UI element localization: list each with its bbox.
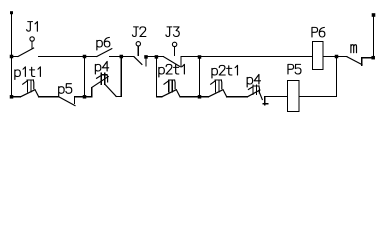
wire node A2 to p4 corner — [85, 96, 92, 98]
contact p2t1 second — [209, 80, 227, 97]
junction node E — [198, 55, 202, 59]
wire p2t1 second to p4 second — [227, 96, 248, 98]
junction node A2 — [83, 95, 87, 99]
label J2 — [132, 27, 145, 37]
junction node D — [155, 55, 159, 59]
switch m — [347, 57, 374, 65]
junction node G — [371, 56, 375, 60]
coil P6 — [313, 42, 324, 70]
wire node F down to lower rung — [336, 57, 338, 97]
wire node A to A2 vertical — [84, 57, 86, 97]
label J3 — [166, 27, 179, 37]
label p5 — [59, 84, 72, 97]
contact p4 second — [247, 85, 262, 100]
junction rail-lower — [10, 95, 14, 99]
wire J2 to tap D — [146, 56, 156, 58]
stub vertical — [264, 97, 266, 105]
wire tap corner to p2t1 — [156, 96, 161, 98]
label P5 — [288, 64, 301, 74]
wire node D down to p2t1 — [155, 57, 157, 97]
label P6 — [312, 27, 325, 37]
wire node B down to p4 exit — [120, 57, 122, 97]
wire node A to p6 — [85, 56, 97, 58]
wire node E down to lower rung — [199, 57, 201, 97]
wire node F to switch m — [337, 56, 348, 58]
wire node E to coil P6 — [200, 56, 313, 58]
wire node B to J2 — [121, 56, 134, 58]
junction node B — [120, 55, 124, 59]
wire coil P5 to node F corner — [299, 96, 337, 98]
label m — [351, 45, 357, 53]
label p2t1 second — [212, 65, 238, 78]
switch J2 — [134, 42, 146, 66]
wire stub corner to coil P5 — [265, 96, 288, 98]
switch J3 — [164, 42, 181, 66]
right rail — [373, 15, 375, 58]
label p6 — [97, 37, 110, 50]
label p4 first — [95, 61, 108, 74]
contact p4 raised — [92, 73, 122, 97]
wire p5 to node A2 — [75, 96, 85, 98]
wire node E2 to p2t1 second — [200, 96, 209, 98]
terminal top-left — [10, 11, 13, 14]
junction node C — [144, 55, 148, 59]
wire p6 to node B — [110, 56, 122, 58]
switch J1 — [18, 37, 34, 57]
junction rail-main — [10, 55, 14, 59]
contact p5 — [59, 97, 76, 106]
left rail — [11, 12, 13, 97]
contact p1t1 — [21, 80, 39, 97]
wire p2t1 to node E2 — [180, 96, 200, 98]
wire coil P6 to node F — [323, 56, 337, 58]
wire node D to J3 — [156, 56, 163, 58]
terminal top-right — [372, 13, 376, 17]
stub tick — [263, 103, 268, 105]
junction node F — [335, 55, 339, 59]
label p1t1 — [15, 67, 41, 80]
label J1 — [27, 22, 38, 32]
wire J1 to node A — [39, 56, 85, 58]
coil P5 — [288, 81, 300, 112]
wire p1t1 to p5 — [39, 96, 59, 98]
junction node E2 — [198, 95, 202, 99]
junction node A — [83, 55, 87, 59]
label p2t1 first — [159, 64, 185, 77]
contact p6 — [97, 49, 112, 57]
wire rail to J1 — [12, 56, 19, 58]
contact p2t1 first — [162, 80, 180, 97]
label p4 second — [247, 74, 260, 87]
wire J3 to node E — [181, 56, 200, 58]
wire rail to p1t1 — [12, 96, 21, 98]
